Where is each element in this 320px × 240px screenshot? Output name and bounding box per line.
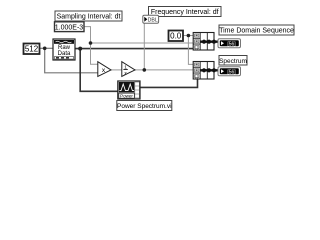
junction on dt wire	[89, 41, 93, 45]
cluster wire lower bundle to indicator	[201, 68, 220, 72]
wire Power Spectrum output to lower bundle bottom	[140, 79, 198, 88]
label Time Domain Sequence	[219, 25, 294, 35]
label Power Spectrum.vi	[117, 101, 172, 111]
indicator DBL df	[143, 15, 159, 23]
bundle node upper	[193, 33, 214, 51]
constant 512	[24, 44, 40, 55]
junction on df wire	[143, 68, 147, 72]
svg-text:1.000E-3: 1.000E-3	[55, 25, 84, 32]
wire 0.0 to upper bundle row1	[183, 35, 193, 37]
wire multiply output to reciprocal	[111, 69, 122, 71]
subVI Power Spectrum	[118, 81, 140, 99]
svg-text:0.0: 0.0	[170, 32, 182, 41]
wire 512 branch down to multiply	[45, 48, 98, 73]
wire 0.0 branch down to lower bundle row1	[188, 36, 193, 65]
label Sampling Interval: dt	[55, 11, 122, 21]
indicator array Time Domain Sequence	[218, 39, 241, 48]
constant 1.000E-3	[55, 22, 85, 32]
svg-text:DBL: DBL	[148, 18, 158, 24]
svg-text:[56]: [56]	[227, 70, 236, 76]
constant 0.0	[169, 31, 184, 42]
svg-text:Power Spectrum.vi: Power Spectrum.vi	[117, 103, 172, 110]
reciprocal node	[122, 62, 135, 77]
wire 512 to Raw Data	[40, 47, 54, 49]
wire dt constant down	[84, 27, 91, 43]
subVI Raw Data	[53, 39, 75, 60]
wire df branch up to indicator	[143, 19, 144, 70]
label Spectrum	[219, 56, 247, 66]
junction on 512 wire	[43, 47, 47, 51]
cluster wire upper bundle to indicator	[201, 40, 220, 44]
svg-text:Spectrum: Spectrum	[219, 58, 247, 65]
svg-text:Sampling Interval: dt: Sampling Interval: dt	[57, 14, 121, 21]
svg-text:Power: Power	[120, 93, 133, 98]
bundle node lower	[193, 62, 214, 80]
wire Raw Data output to bundle	[75, 48, 193, 50]
label Frequency Interval: df	[149, 7, 222, 17]
svg-text:[ ]: [ ]	[195, 45, 198, 49]
junction on raw data wire	[78, 47, 82, 51]
wire dt to bundle row2	[91, 42, 194, 44]
wire raw data branch down to Power Spectrum	[80, 49, 118, 92]
wire reciprocal output to lower bundle row2	[135, 69, 193, 71]
junction on 0.0 wire	[187, 34, 191, 38]
svg-text:Frequency Interval: df: Frequency Interval: df	[151, 9, 219, 16]
multiply node	[98, 62, 111, 77]
svg-text:512: 512	[25, 45, 39, 54]
svg-text:[56]: [56]	[227, 41, 236, 47]
svg-text:[ ]: [ ]	[195, 74, 198, 78]
indicator array Spectrum	[218, 67, 241, 76]
svg-text:Time Domain Sequence: Time Domain Sequence	[219, 28, 294, 35]
wire dt down to multiply top input	[91, 43, 98, 64]
